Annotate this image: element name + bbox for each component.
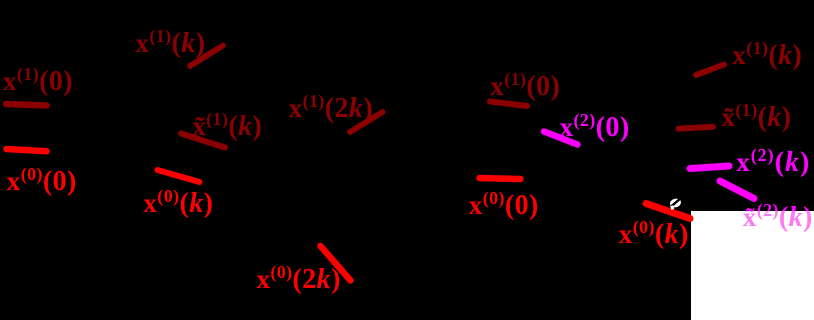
label E6 x^(2)(k)	[736, 162, 810, 167]
label E11 x^(0)(k)	[619, 234, 689, 239]
segment C3 x0(2k) red steep falling	[321, 246, 351, 281]
white page corner rectangle	[691, 211, 814, 320]
segment B5 x0(k) red falling	[158, 170, 200, 182]
label E8b xt^(2)(k) part on white (light pink)	[743, 217, 813, 222]
label B1 x^(1)(k)	[135, 43, 205, 48]
segment B2 x1(k) dark rising	[190, 46, 223, 67]
segment D4 x2(0) magenta falling	[544, 132, 578, 145]
label C4 x^(0)(2k)	[256, 279, 340, 284]
segment C2 x1(2k) dark rising	[350, 112, 383, 132]
segment A3 x0(0) red	[7, 149, 47, 151]
segment E9 x0(k) red falling	[646, 204, 690, 219]
segment E1 x1(k) dark rising	[696, 65, 724, 76]
segment B4 xt1(k) dark falling	[181, 134, 225, 148]
white P glyph	[669, 197, 683, 210]
segment D5 x0(0) red	[480, 178, 521, 179]
label E8 xt^(2)(k) part on black (bright magenta)	[743, 217, 813, 222]
label D3 x^(2)(0)	[560, 127, 630, 132]
segment E3 xt1(k) dark dash 1	[679, 125, 695, 132]
label C1 x^(1)(2k)	[289, 108, 373, 113]
segment D2 x1(0) dark	[490, 102, 527, 107]
label D1 x^(1)(0)	[490, 86, 560, 91]
segment E5 x2(k) magenta	[690, 166, 729, 169]
segment E7 xt2(k) magenta falling	[720, 181, 754, 199]
label B3 xt^(1)(k)	[192, 126, 262, 131]
segment E3b xt1(k) dark dash 2	[698, 124, 714, 131]
label E2 x^(1)(k)	[732, 55, 802, 60]
label E4 xt^(1)(k)	[722, 117, 792, 122]
label D6 x^(0)(0)	[469, 205, 539, 210]
segment A2 x1(0) dark	[6, 104, 47, 106]
label B6 x^(0)(k)	[143, 203, 213, 208]
label A4 x^(0)(0)	[7, 181, 77, 186]
label A1 x^(1)(0)	[3, 81, 73, 86]
